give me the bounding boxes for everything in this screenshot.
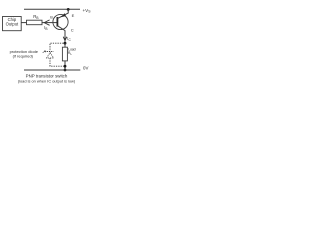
- svg-text:(load is on when IC output is: (load is on when IC output is low): [18, 79, 76, 84]
- transistor Q1 collector: [58, 26, 65, 43]
- svg-text:B: B: [50, 15, 53, 19]
- wire RB to base: [42, 22, 57, 24]
- load resistor RL box: [62, 47, 67, 61]
- protection diode D1 cathode bar: [47, 51, 54, 53]
- svg-text:Output: Output: [6, 22, 19, 27]
- svg-text:E: E: [72, 13, 75, 18]
- node rail junction: [64, 69, 67, 72]
- annotation arrow to diode: [43, 51, 46, 53]
- svg-text:RL: RL: [68, 51, 73, 56]
- wire load to 0V rail: [64, 61, 66, 70]
- protection diode D1 triangle: [47, 53, 54, 58]
- chip output box: [3, 17, 22, 31]
- transistor Q1 circle: [53, 14, 68, 29]
- transistor Q1 emitter: [58, 9, 69, 18]
- svg-text:0V: 0V: [83, 66, 88, 71]
- svg-text:IB: IB: [44, 25, 47, 31]
- node emitter rail junction: [67, 8, 70, 11]
- protection diode D1 dashed branch bottom wire: [50, 58, 64, 66]
- wire chip output to RB: [21, 22, 26, 24]
- IC current arrow: [63, 37, 67, 41]
- svg-text:(if required): (if required): [13, 54, 34, 59]
- transistor Q1 emitter arrow (PNP): [60, 13, 66, 17]
- resistor RB: [27, 20, 43, 25]
- svg-text:+VS: +VS: [83, 8, 92, 14]
- transistor Q1 base bar: [56, 17, 58, 27]
- protection diode D1 dashed branch top wire: [50, 43, 64, 51]
- svg-text:RB: RB: [33, 14, 38, 20]
- svg-text:C: C: [71, 28, 74, 33]
- wire bottom 0V rail: [24, 69, 80, 71]
- node diode-branch junction: [64, 65, 67, 68]
- IB current arrow: [44, 20, 49, 25]
- wire collector node to load: [64, 43, 66, 47]
- wire top +Vs rail: [24, 8, 80, 10]
- node collector junction: [64, 42, 67, 45]
- svg-text:PNP transistor switch: PNP transistor switch: [26, 73, 68, 78]
